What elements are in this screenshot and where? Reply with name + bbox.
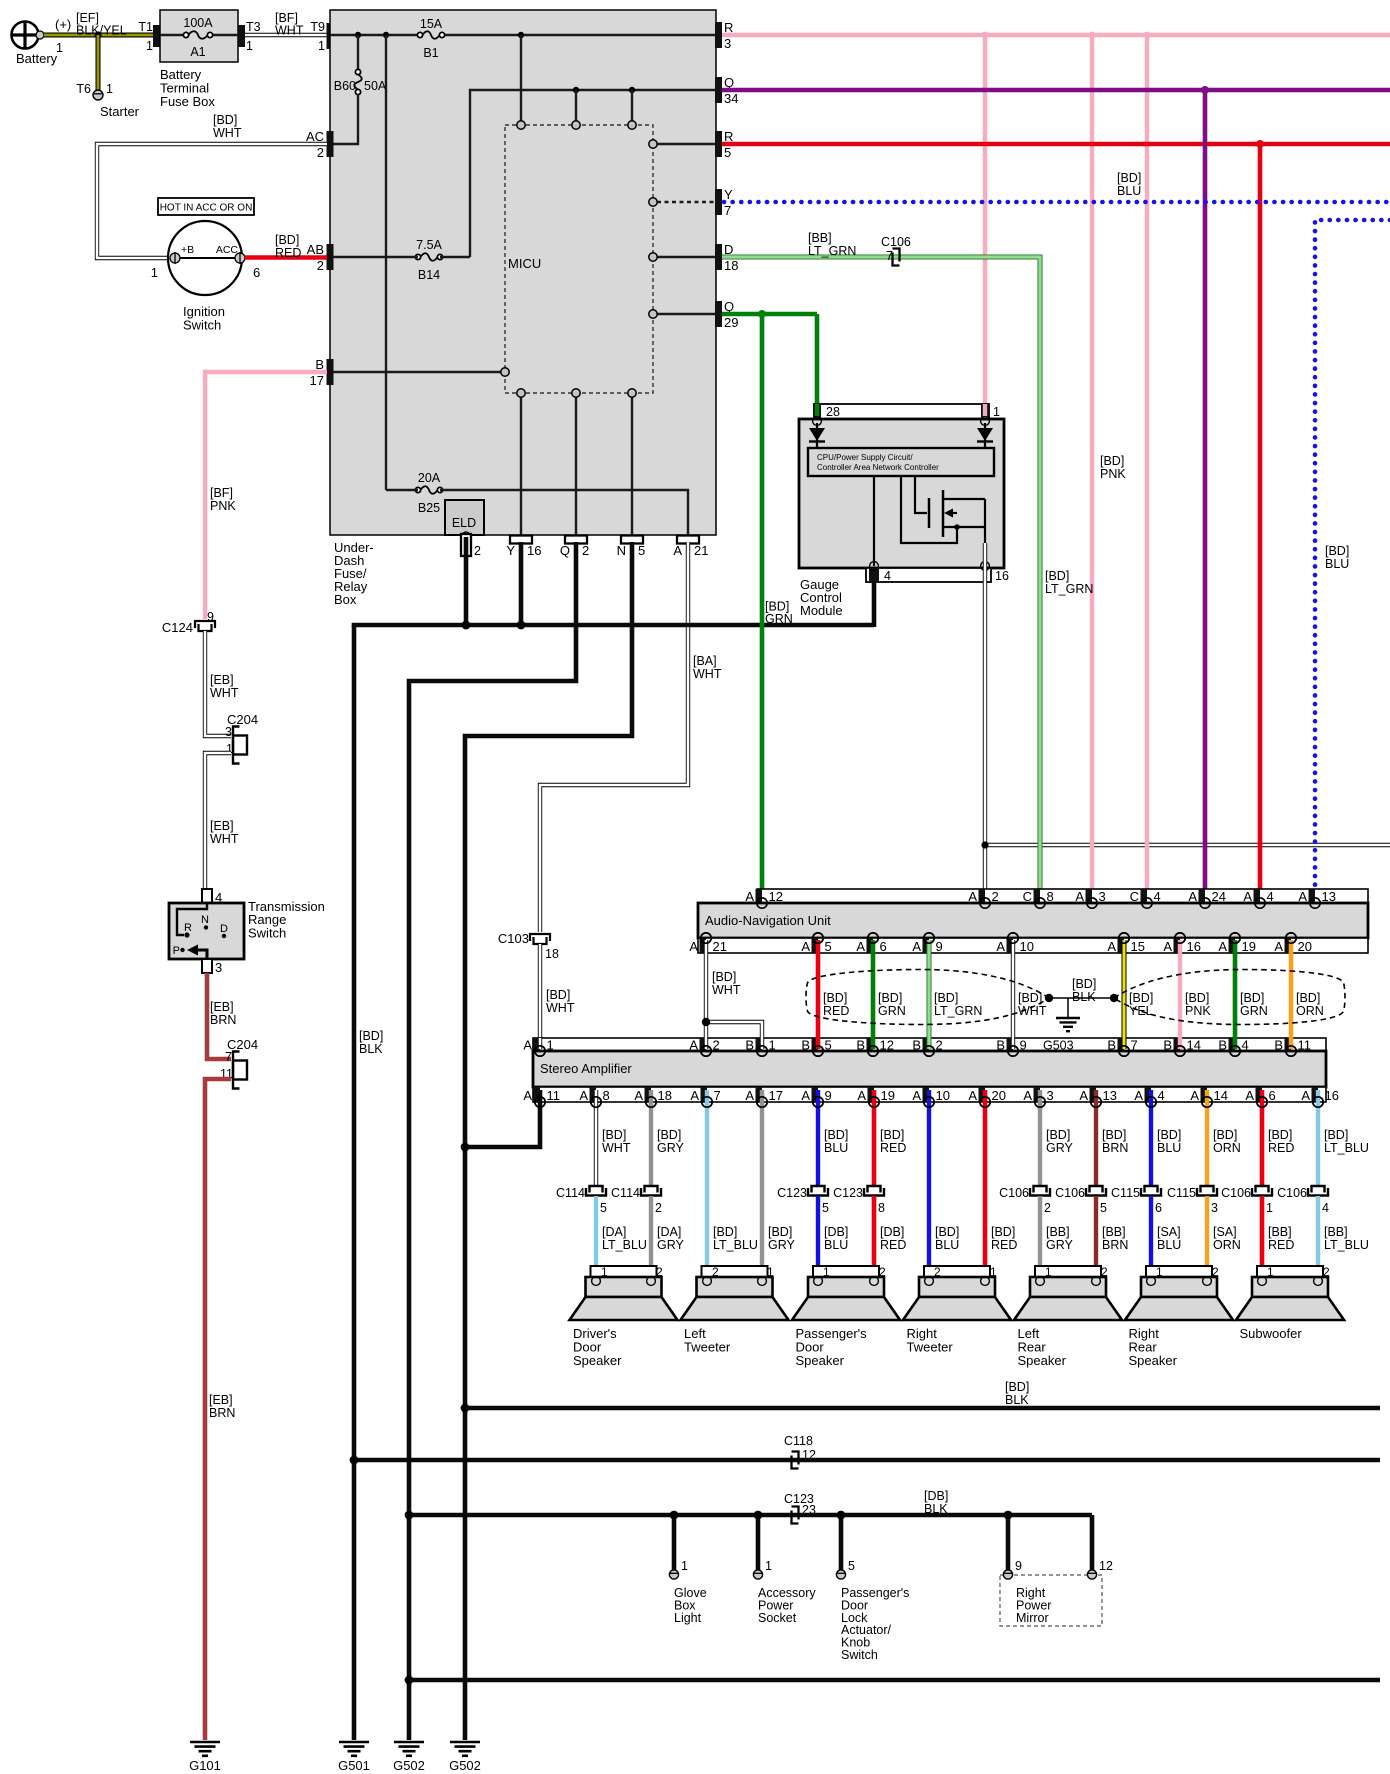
black bus [BD] GRN horizontal — [352, 623, 874, 628]
svg-text:1: 1 — [823, 1265, 830, 1279]
ground G101 — [190, 1741, 220, 1744]
svg-text:6: 6 — [253, 265, 260, 280]
wire to speaker — [1094, 1196, 1098, 1278]
wire A15-B7 [BD] YEL — [1122, 940, 1127, 1049]
svg-text:(+): (+) — [55, 17, 71, 32]
ground G502 second — [450, 1741, 480, 1744]
stereo amplifier bottom connector strip — [533, 1087, 1326, 1102]
svg-text:G502: G502 — [393, 1758, 425, 1773]
amp pin A18 — [645, 1087, 652, 1102]
svg-text:+B: +B — [181, 244, 194, 256]
svg-text:A: A — [689, 939, 698, 954]
box pins right edge — [715, 22, 722, 48]
wire to speaker — [649, 1196, 653, 1278]
svg-text:5: 5 — [638, 543, 645, 558]
wire amp to C106 — [1094, 1090, 1098, 1186]
svg-text:7.5A: 7.5A — [416, 238, 442, 252]
svg-text:WHT: WHT — [546, 1001, 575, 1015]
drop to right power mirror pin 12 — [1090, 1515, 1095, 1570]
svg-text:2: 2 — [317, 145, 324, 160]
wire A21 [BA] WHT to C103 — [540, 542, 688, 932]
svg-text:LT_BLU: LT_BLU — [1324, 1141, 1369, 1155]
svg-text:C103: C103 — [498, 931, 529, 946]
audio-navigation unit bottom connector strip — [698, 938, 1368, 953]
svg-text:Speaker: Speaker — [1018, 1353, 1067, 1368]
TRS internal contacts — [177, 903, 207, 935]
svg-text:Box: Box — [334, 592, 357, 607]
svg-text:A: A — [1190, 1088, 1199, 1103]
wire to speaker — [1260, 1196, 1265, 1278]
svg-text:[BD]: [BD] — [1185, 991, 1209, 1005]
svg-text:Tweeter: Tweeter — [907, 1340, 954, 1355]
svg-text:[BD]: [BD] — [712, 970, 736, 984]
svg-text:Switch: Switch — [841, 1648, 878, 1662]
svg-text:[BD]: [BD] — [546, 988, 570, 1002]
svg-text:BLK: BLK — [924, 1502, 948, 1516]
amp pin A14 — [1201, 1087, 1208, 1102]
box pins left edge — [327, 131, 334, 157]
ground G503 — [1056, 1017, 1080, 1019]
gauge control module connector strip — [814, 404, 989, 419]
wire N5 trunk to G502 — [465, 542, 632, 1740]
svg-text:WHT: WHT — [1018, 1004, 1047, 1018]
glove box light terminal — [669, 1570, 678, 1579]
HOT IN ACC OR ON box — [158, 198, 254, 215]
svg-text:C106: C106 — [881, 235, 911, 249]
wire A6-B12 [BD] GRN — [871, 940, 876, 1049]
svg-text:[DB]: [DB] — [924, 1489, 948, 1503]
svg-text:[BD]: [BD] — [359, 1029, 383, 1043]
svg-text:[BD]: [BD] — [1325, 544, 1349, 558]
amp pin A20 — [979, 1087, 986, 1102]
svg-text:B60: B60 — [334, 79, 356, 93]
amp pin B7 — [1118, 1038, 1125, 1051]
svg-text:6: 6 — [880, 939, 887, 954]
svg-text:[BD]: [BD] — [934, 991, 958, 1005]
svg-text:[BB]: [BB] — [1268, 1225, 1292, 1239]
svg-text:[EB]: [EB] — [210, 1000, 234, 1014]
svg-text:Switch: Switch — [248, 925, 286, 940]
speaker left rear — [1035, 1266, 1101, 1277]
svg-text:10: 10 — [936, 1088, 950, 1103]
wire A1 through pin — [538, 1038, 542, 1049]
door lock actuator terminal — [836, 1570, 845, 1579]
svg-text:[BD]: [BD] — [1157, 1128, 1181, 1142]
svg-text:LT_BLU: LT_BLU — [1324, 1238, 1369, 1252]
svg-text:3: 3 — [225, 725, 232, 739]
shield left twisted pair — [806, 970, 1049, 1025]
svg-text:2: 2 — [655, 1201, 662, 1215]
amp pin B12 — [867, 1038, 874, 1051]
svg-text:CPU/Power Supply Circuit/: CPU/Power Supply Circuit/ — [817, 453, 913, 462]
svg-text:P: P — [173, 945, 180, 957]
svg-text:A: A — [690, 1088, 699, 1103]
svg-text:Speaker: Speaker — [573, 1353, 622, 1368]
svg-text:1: 1 — [767, 1265, 774, 1279]
nav pin A19 — [1229, 938, 1236, 953]
nav pin A6 — [867, 938, 874, 953]
svg-text:[BD]: [BD] — [1046, 1128, 1070, 1142]
svg-text:Subwoofer: Subwoofer — [1240, 1326, 1303, 1341]
svg-text:ORN: ORN — [1213, 1238, 1241, 1252]
svg-text:C114: C114 — [611, 1186, 640, 1200]
gauge control module box — [799, 419, 1004, 568]
svg-text:A: A — [523, 1038, 532, 1053]
svg-text:GRN: GRN — [1240, 1004, 1268, 1018]
svg-text:16: 16 — [1187, 939, 1201, 954]
svg-text:4: 4 — [1158, 1088, 1165, 1103]
amp pin A1 — [534, 1038, 541, 1051]
amp pin A2 — [700, 1038, 707, 1051]
svg-text:[BD]: [BD] — [1072, 977, 1096, 991]
svg-text:Tweeter: Tweeter — [684, 1340, 731, 1355]
svg-text:Q: Q — [560, 543, 570, 558]
right power mirror terminal 12 — [1087, 1570, 1096, 1579]
amp pin A16 — [1312, 1087, 1319, 1102]
white stub wire to right edge — [985, 843, 1390, 847]
fuse 100A A1 — [186, 32, 210, 39]
bottom bus [BD] BLK 1 — [465, 1406, 1380, 1411]
svg-text:R: R — [724, 20, 733, 35]
bottom bus with C123 — [409, 1513, 1092, 1518]
svg-text:A: A — [801, 939, 810, 954]
svg-text:RED: RED — [880, 1238, 906, 1252]
wire amp to speaker — [760, 1090, 764, 1278]
svg-text:HOT IN ACC OR ON: HOT IN ACC OR ON — [160, 203, 253, 214]
svg-text:C106: C106 — [1277, 1186, 1307, 1200]
svg-text:C124: C124 — [162, 620, 193, 635]
svg-text:[BB]: [BB] — [1102, 1225, 1126, 1239]
svg-text:[BD]: [BD] — [878, 991, 902, 1005]
wire amp to speaker — [927, 1090, 931, 1278]
svg-text:A: A — [996, 939, 1005, 954]
wire amp to speaker — [983, 1090, 988, 1278]
junction starter branch — [94, 31, 101, 38]
svg-text:C118: C118 — [784, 1434, 813, 1448]
drop to door lock actuator — [839, 1515, 844, 1570]
nav pin A12 — [756, 889, 763, 903]
svg-text:BLU: BLU — [1157, 1238, 1181, 1252]
wire amp to C123 — [872, 1090, 877, 1186]
svg-text:1: 1 — [681, 1559, 688, 1573]
right power mirror terminal 9 — [1003, 1570, 1012, 1579]
svg-text:16: 16 — [995, 569, 1009, 583]
svg-text:RED: RED — [880, 1141, 906, 1155]
svg-text:GRN: GRN — [765, 612, 793, 626]
wire amp to C106 — [1038, 1090, 1042, 1186]
diode at pin 1 — [984, 423, 986, 448]
svg-text:Speaker: Speaker — [796, 1353, 845, 1368]
amp pin B9 — [1007, 1038, 1014, 1051]
speaker passenger's door — [813, 1266, 879, 1277]
svg-text:[BD]: [BD] — [1102, 1128, 1126, 1142]
svg-text:1: 1 — [1045, 1265, 1052, 1279]
svg-text:BLK/YEL: BLK/YEL — [76, 24, 127, 38]
svg-text:19: 19 — [881, 1088, 895, 1103]
svg-text:B1: B1 — [423, 46, 438, 60]
svg-text:12: 12 — [1099, 1559, 1113, 1573]
svg-text:A1: A1 — [190, 45, 205, 59]
svg-text:N: N — [201, 914, 209, 926]
svg-text:2: 2 — [1323, 1265, 1330, 1279]
amp pin B14 — [1174, 1038, 1181, 1051]
amp pin A19 — [868, 1087, 875, 1102]
svg-text:A: A — [856, 939, 865, 954]
fuse 15A B1 — [420, 32, 442, 39]
svg-text:A: A — [673, 543, 682, 558]
wire amp to C115 — [1149, 1090, 1153, 1186]
right power mirror dashed box — [1000, 1575, 1102, 1626]
svg-text:C123: C123 — [833, 1186, 863, 1200]
fuse 20A B25 — [418, 487, 440, 494]
svg-text:4: 4 — [884, 569, 891, 583]
wire Y16 to black bus — [519, 542, 524, 627]
starter terminal — [93, 90, 103, 100]
svg-text:14: 14 — [1214, 1088, 1228, 1103]
nav pin C4 — [1141, 889, 1148, 903]
svg-text:1: 1 — [246, 39, 253, 53]
drop to accessory power socket — [756, 1515, 761, 1570]
svg-text:T6: T6 — [76, 82, 91, 96]
svg-text:A: A — [1245, 1088, 1254, 1103]
wire A19-B4 [BD] GRN — [1233, 940, 1238, 1049]
svg-text:Mirror: Mirror — [1016, 1611, 1049, 1625]
svg-text:BLU: BLU — [935, 1238, 959, 1252]
wire Q34 purple bus — [722, 88, 1390, 93]
fuse B60 50A — [357, 35, 359, 70]
wire Q29 green — [722, 312, 817, 317]
svg-text:Switch: Switch — [183, 318, 221, 333]
svg-text:ORN: ORN — [1213, 1141, 1241, 1155]
svg-text:[BD]: [BD] — [1213, 1128, 1237, 1142]
svg-text:1: 1 — [146, 39, 153, 53]
svg-text:[BD]: [BD] — [1240, 991, 1264, 1005]
svg-text:[BD]: [BD] — [1268, 1128, 1292, 1142]
ignition switch — [168, 221, 242, 295]
svg-text:R: R — [184, 922, 192, 934]
svg-text:[BB]: [BB] — [808, 231, 832, 245]
nav pin A21 — [700, 938, 707, 953]
svg-text:2: 2 — [879, 1265, 886, 1279]
bottom bus with C118 — [354, 1458, 1380, 1463]
svg-text:B: B — [315, 357, 324, 372]
svg-text:8: 8 — [878, 1201, 885, 1215]
svg-text:A: A — [912, 939, 921, 954]
pink branch to gauge module pin 1 — [983, 35, 987, 404]
speaker subwoofer — [1257, 1266, 1323, 1277]
wire amp to C106 — [1316, 1090, 1320, 1186]
wire A9-B2 [BD] LT_GRN — [927, 940, 932, 1049]
svg-text:[BD]: [BD] — [880, 1128, 904, 1142]
svg-text:[BD]: [BD] — [823, 991, 847, 1005]
svg-text:G101: G101 — [189, 1758, 221, 1773]
svg-text:G502: G502 — [449, 1758, 481, 1773]
svg-text:[BD]: [BD] — [213, 113, 237, 127]
svg-text:21: 21 — [713, 939, 727, 954]
wire A20-B11 [BD] ORN — [1289, 940, 1294, 1049]
svg-text:T9: T9 — [310, 20, 325, 34]
wire amp to C106 — [1260, 1090, 1265, 1186]
TRS selector arrow — [197, 950, 207, 959]
svg-text:BLU: BLU — [824, 1238, 848, 1252]
svg-text:10: 10 — [1020, 939, 1034, 954]
svg-text:1: 1 — [765, 1559, 772, 1573]
amp bottom pin circles redrawn — [535, 1097, 545, 1107]
svg-text:A: A — [1023, 1088, 1032, 1103]
svg-text:[BD]: [BD] — [1129, 991, 1153, 1005]
wire to speaker — [1205, 1196, 1209, 1278]
svg-text:ELD: ELD — [452, 516, 476, 530]
amp pin A3 — [1034, 1087, 1041, 1102]
svg-text:A: A — [912, 1088, 921, 1103]
svg-text:2: 2 — [656, 1265, 663, 1279]
purple branch to nav A24 — [1203, 90, 1208, 891]
svg-text:MICU: MICU — [508, 256, 541, 271]
svg-text:16: 16 — [1325, 1088, 1339, 1103]
amp pin B11 — [1285, 1038, 1292, 1051]
svg-text:Module: Module — [800, 603, 843, 618]
nav pin A13 — [1309, 889, 1316, 903]
svg-text:[BD]: [BD] — [275, 233, 299, 247]
wire to speaker — [1316, 1196, 1320, 1278]
svg-text:[BD]: [BD] — [1018, 991, 1042, 1005]
speaker right rear — [1146, 1266, 1212, 1277]
svg-text:ACC: ACC — [216, 244, 239, 256]
svg-text:5: 5 — [1100, 1201, 1107, 1215]
svg-text:18: 18 — [545, 947, 559, 961]
terminal T3 — [238, 25, 245, 47]
svg-text:GRY: GRY — [657, 1238, 685, 1252]
nav pin A24 — [1199, 889, 1206, 903]
wire Y7 [BD] BLU dotted bus — [724, 200, 1390, 205]
svg-text:Starter: Starter — [100, 104, 140, 119]
svg-text:1: 1 — [56, 41, 63, 55]
svg-text:GRY: GRY — [1046, 1238, 1074, 1252]
svg-text:7: 7 — [724, 203, 731, 218]
CPU/CAN controller block — [808, 448, 994, 476]
wire A16-B14 [BD] PNK — [1178, 940, 1182, 1049]
wire to starter — [96, 35, 101, 90]
audio-navigation unit top connector strip — [757, 889, 1368, 903]
svg-text:GRY: GRY — [768, 1238, 796, 1252]
svg-text:1: 1 — [1266, 1201, 1273, 1215]
audio-navigation unit box — [698, 903, 1368, 938]
svg-text:A: A — [1218, 939, 1227, 954]
svg-text:100A: 100A — [183, 16, 213, 30]
wire [EB] WHT to C204 — [205, 631, 231, 736]
svg-text:3: 3 — [215, 960, 222, 975]
svg-text:[BD]: [BD] — [657, 1128, 681, 1142]
wire A21 to amp A2/B1 [BD] WHT — [704, 940, 708, 1049]
wire A11 [BD] BLK to trunk — [463, 1090, 540, 1147]
svg-text:A: A — [523, 1088, 532, 1103]
svg-text:GRY: GRY — [657, 1141, 685, 1155]
svg-text:N: N — [617, 543, 626, 558]
svg-text:8: 8 — [603, 1088, 610, 1103]
trunk wire to G501 — [352, 625, 357, 1740]
svg-text:Controller Area Network Contro: Controller Area Network Controller — [817, 463, 939, 472]
fuse 7.5A B14 — [418, 254, 440, 261]
svg-text:13: 13 — [1103, 1088, 1117, 1103]
battery terminal fuse box A1 — [160, 10, 238, 62]
wire R5 red bus — [722, 142, 1390, 147]
amp pin B2 — [923, 1038, 930, 1051]
wire Q2 trunk to G502 — [409, 542, 576, 1740]
svg-text:Fuse Box: Fuse Box — [160, 94, 215, 109]
svg-text:C115: C115 — [1111, 1186, 1140, 1200]
MICU dashed block — [505, 125, 653, 393]
wire [EB] BRN to ground G101 — [205, 1079, 231, 1740]
svg-text:23: 23 — [802, 1503, 816, 1517]
svg-text:1: 1 — [1156, 1265, 1163, 1279]
svg-text:Y: Y — [506, 543, 515, 558]
internal wire to fuse B25 — [385, 35, 387, 490]
svg-text:[BD]: [BD] — [602, 1128, 626, 1142]
wire [BD] WHT to amp A1 — [538, 944, 542, 1040]
svg-text:[DA]: [DA] — [602, 1225, 626, 1239]
svg-text:5: 5 — [600, 1201, 607, 1215]
svg-text:17: 17 — [769, 1088, 783, 1103]
svg-text:A: A — [1079, 1088, 1088, 1103]
svg-text:21: 21 — [694, 543, 708, 558]
amp pin A4 — [1145, 1087, 1152, 1102]
wire amp to C114 — [594, 1090, 598, 1186]
svg-text:2: 2 — [582, 543, 589, 558]
svg-text:[EB]: [EB] — [210, 673, 234, 687]
svg-text:16: 16 — [527, 543, 541, 558]
svg-text:[BF]: [BF] — [210, 486, 233, 500]
wire T3 to T9 [BF] WHT — [245, 33, 327, 37]
svg-text:A: A — [1107, 939, 1116, 954]
svg-text:BLK: BLK — [359, 1042, 383, 1056]
transistor Q1 MOSFET — [873, 476, 875, 566]
svg-text:BLK: BLK — [1005, 1393, 1029, 1407]
svg-text:RED: RED — [823, 1004, 849, 1018]
svg-text:Socket: Socket — [758, 1611, 797, 1625]
svg-text:Speaker: Speaker — [1129, 1353, 1178, 1368]
svg-text:PNK: PNK — [210, 499, 236, 513]
svg-text:LT_GRN: LT_GRN — [934, 1004, 982, 1018]
nav pin A5 — [812, 938, 819, 953]
red branch to nav A4 — [1258, 144, 1263, 891]
svg-text:[BD]: [BD] — [1045, 569, 1069, 583]
diode at pin 28 — [816, 423, 818, 448]
svg-text:5: 5 — [825, 939, 832, 954]
svg-text:[BD]: [BD] — [935, 1225, 959, 1239]
wire ELD to black bus — [464, 537, 469, 627]
wire [EB] WHT to TRS pin 4 — [205, 753, 231, 891]
svg-text:PNK: PNK — [1185, 1004, 1211, 1018]
svg-text:PNK: PNK — [1100, 467, 1126, 481]
svg-text:BRN: BRN — [210, 1013, 236, 1027]
svg-text:1: 1 — [1267, 1265, 1274, 1279]
svg-text:[BA]: [BA] — [693, 654, 717, 668]
svg-text:BLU: BLU — [824, 1141, 848, 1155]
svg-text:[DA]: [DA] — [657, 1225, 681, 1239]
svg-text:T1: T1 — [138, 20, 153, 34]
svg-text:1: 1 — [993, 405, 1000, 419]
svg-text:LT_GRN: LT_GRN — [808, 244, 856, 258]
svg-text:5: 5 — [724, 145, 731, 160]
drop to glove box light — [672, 1515, 677, 1570]
svg-text:[BD]: [BD] — [1100, 454, 1124, 468]
stereo amplifier top connector strip — [533, 1038, 1326, 1051]
wire to speaker — [872, 1196, 877, 1278]
svg-text:[DB]: [DB] — [824, 1225, 848, 1239]
svg-text:A: A — [801, 1088, 810, 1103]
svg-text:C106: C106 — [999, 1186, 1029, 1200]
wire to speaker — [594, 1196, 598, 1278]
